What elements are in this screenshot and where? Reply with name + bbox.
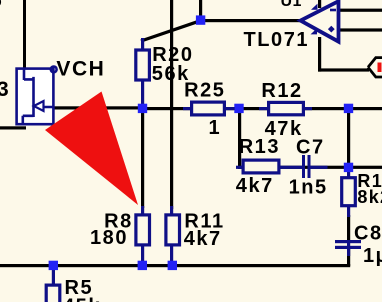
wire: R8 column J2 down: [141, 110, 144, 208]
junction J7: [138, 261, 147, 270]
svg-text:R12: R12: [261, 80, 302, 102]
svg-text:1n5: 1n5: [289, 177, 328, 199]
resistor R25: [192, 102, 225, 115]
svg-text:C8: C8: [354, 222, 382, 244]
svg-text:C7: C7: [296, 136, 325, 158]
junction J5: [344, 163, 353, 172]
svg-text:U1: U1: [281, 0, 302, 10]
op-amp plus mark: [328, 26, 335, 33]
svg-text:VCH: VCH: [56, 58, 105, 81]
resistor R12: [269, 102, 304, 114]
svg-text:TL071: TL071: [244, 29, 310, 51]
wire: op-amp output row: [199, 19, 302, 22]
resistor R20 leads: [141, 38, 144, 50]
svg-text:1µ: 1µ: [363, 245, 382, 267]
resistor R5 lead: [52, 268, 55, 285]
pin circle VCH: [51, 67, 57, 73]
transistor Q3 arrow: [34, 101, 44, 111]
wire: op-amp inverting input: [337, 9, 382, 12]
red cursor triangle: [45, 92, 138, 206]
resistor R8 leads: [141, 206, 144, 217]
wire: vertical net to transistor top pin: [23, 0, 26, 69]
svg-text:4k7: 4k7: [236, 175, 274, 197]
svg-text:3: 3: [0, 78, 10, 101]
wire: vertical from J1 to top edge: [199, 0, 202, 21]
resistor R8: [136, 215, 150, 245]
wire: op-amp V- pin: [318, 37, 321, 72]
wire: op-amp non-inverting input: [337, 28, 382, 31]
svg-text:8k2: 8k2: [357, 187, 382, 207]
resistor R12 leads: [259, 107, 268, 110]
wire: main row J2 to right edge: [141, 107, 382, 110]
resistor R5: [46, 285, 60, 302]
junction J8: [168, 261, 177, 270]
capacitor C8: [335, 240, 361, 243]
port flag: [368, 58, 382, 77]
wire: R13 C7 row: [238, 166, 382, 169]
svg-text:R25: R25: [184, 79, 225, 101]
svg-text:R13: R13: [239, 136, 280, 158]
svg-text:180: 180: [90, 227, 128, 249]
wire: diagonal J1 to R20: [141, 21, 201, 41]
svg-text:45k: 45k: [63, 296, 101, 302]
wire: R13 branch vertical: [238, 108, 241, 169]
resistor R14 leads: [347, 169, 350, 178]
capacitor C7: [302, 155, 305, 178]
op-amp V- pin arrow: [311, 28, 318, 34]
resistor R20: [136, 50, 150, 80]
wire: C8 column: [347, 215, 350, 242]
junction J2: [138, 104, 147, 113]
resistor R11 leads: [170, 206, 173, 217]
resistor R13 leads: [236, 166, 243, 169]
resistor R14: [342, 178, 356, 206]
svg-text:4k7: 4k7: [184, 228, 222, 250]
junction J6: [49, 261, 58, 270]
resistor R25 leads: [183, 107, 191, 110]
junction J4: [344, 104, 353, 113]
junction J3: [234, 104, 243, 113]
wire: C8 to bottom wire: [347, 248, 350, 266]
wire: R11 column top: [170, 0, 173, 209]
junction J1: [196, 15, 205, 24]
wire: op-amp V+ pin: [318, 0, 321, 8]
wire: bottom net row: [0, 264, 350, 267]
op-amp minus mark: [330, 9, 336, 12]
svg-text:1: 1: [209, 117, 222, 139]
wire: V- to port flag: [318, 68, 369, 71]
transistor Q3 internals: [23, 68, 53, 126]
wire: J4 to J5 vertical: [347, 110, 350, 169]
wire: transistor source to node row: [50, 106, 143, 109]
wire: transistor gate net at left: [0, 126, 26, 129]
op-amp V+ pin arrow: [311, 4, 318, 10]
port red text fragment: [378, 63, 382, 73]
svg-text:5: 5: [0, 0, 3, 12]
transistor Q3 body: [17, 69, 54, 125]
resistor R13: [243, 160, 279, 173]
op-amp U1 triangle: [301, 1, 339, 41]
resistor R11: [166, 215, 180, 245]
